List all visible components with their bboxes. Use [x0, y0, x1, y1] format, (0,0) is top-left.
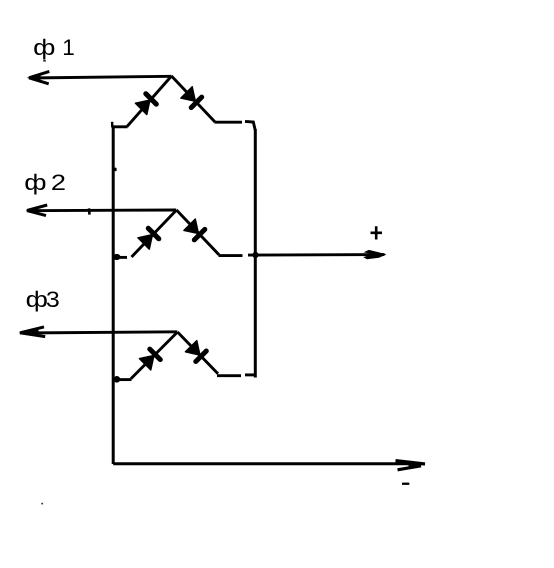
net label ф 2: [24, 170, 66, 195]
diode D2 (phase 1 to plus bus) arrow: [181, 87, 196, 102]
arrowhead plus output (right): [363, 250, 386, 259]
diode D4 (phase 2 to plus bus) arrow: [184, 219, 199, 234]
diode D4 cathode bar: [194, 229, 205, 240]
diode D5 (phase 3 to minus bus) arrow: [139, 355, 154, 370]
wire tent 1 left slope: [127, 76, 172, 127]
svg-text:2: 2: [51, 170, 66, 195]
junction tick on phase 2 lead: [88, 208, 91, 214]
wire phase 3 horizontal lead: [20, 332, 177, 333]
svg-text:ф: ф: [33, 35, 55, 60]
diode D3 cathode bar: [148, 228, 159, 239]
wire tent 2 right slope: [177, 210, 220, 255]
bump on minus bus: [114, 168, 116, 172]
diode D3 (phase 2 to minus bus) arrow: [138, 235, 153, 250]
wire plus output line: [248, 253, 385, 256]
wire right (plus) bus: [254, 129, 257, 378]
wire tent 3 left slope: [131, 332, 178, 379]
net label ф3: [26, 287, 60, 312]
wire tent 1 right slope: [172, 76, 216, 122]
diode D1 (phase 1 to minus bus) arrow: [135, 100, 150, 115]
wire tent 3 left stub: [119, 378, 132, 381]
arrowhead minus output (right): [396, 461, 426, 470]
wire tent 1 left stub: [112, 125, 128, 128]
wire top-right corner dash: [245, 121, 255, 130]
wire tent 1 right stub: [215, 121, 243, 124]
wire left (minus) bus: [112, 126, 115, 465]
wire tent 3 right stub: [217, 374, 241, 377]
diode D6 cathode bar: [196, 351, 207, 362]
svg-text:1: 1: [62, 35, 75, 60]
junction dot tent 2 on minus bus: [113, 254, 120, 260]
svg-text:ф: ф: [26, 287, 48, 312]
arrowhead phase 1 (left): [29, 71, 50, 83]
svg-text:3: 3: [46, 287, 60, 312]
wire bottom minus output line: [113, 462, 420, 465]
wire tent 2 left dash: [120, 256, 128, 259]
arrowhead phase 2 (left): [27, 205, 48, 216]
wire tent 3 right dash to plus bus: [245, 373, 255, 376]
diode D1 cathode bar: [146, 94, 157, 105]
diode D6 (phase 3 to plus bus) arrow: [185, 341, 200, 356]
wire tent 3 right slope: [178, 332, 219, 374]
wire tent 2 right stub: [219, 254, 243, 257]
arrowhead phase 3 (left): [20, 327, 46, 337]
diode D2 cathode bar: [191, 97, 202, 108]
wire tent 2 left slope: [132, 210, 177, 257]
net label -: [402, 483, 409, 485]
net label ф 1: [33, 35, 75, 60]
stray ink dot top left: [43, 60, 46, 62]
junction dot tent 3 on minus bus: [113, 376, 120, 383]
svg-text:ф: ф: [24, 170, 46, 195]
junction dot plus line on plus bus: [252, 252, 258, 258]
stray ink dot bottom left: [41, 503, 43, 505]
corner tick at minus bus top: [111, 122, 114, 128]
diode D5 cathode bar: [150, 349, 161, 360]
wire phase 1 horizontal lead: [29, 76, 172, 78]
net label +: [371, 226, 383, 239]
wire phase 2 horizontal lead: [27, 209, 176, 213]
